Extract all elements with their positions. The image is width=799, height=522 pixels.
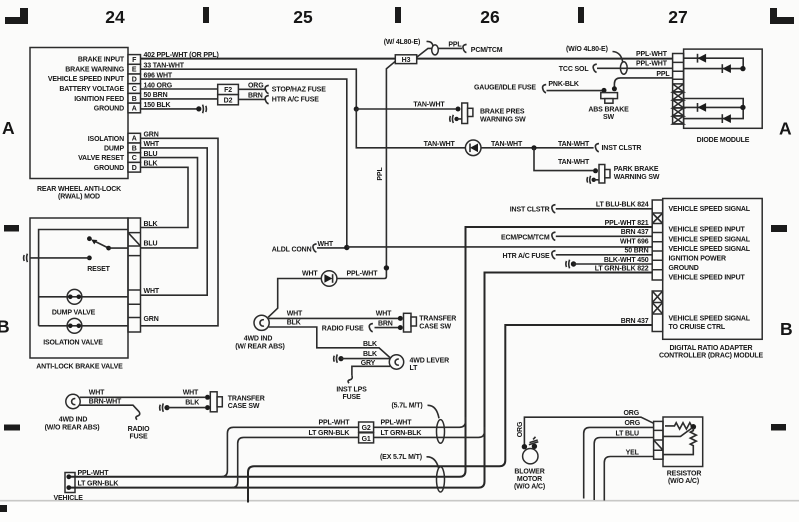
svg-text:BLK: BLK <box>185 399 199 406</box>
node junction PPL-WHT <box>384 265 389 270</box>
svg-text:VEHICLE SPEED SIGNAL: VEHICLE SPEED SIGNAL <box>669 206 751 213</box>
svg-text:SW: SW <box>603 114 615 121</box>
svg-text:50 BRN: 50 BRN <box>144 92 168 99</box>
transfer case sw connector bl <box>205 392 222 412</box>
svg-text:G1: G1 <box>362 436 371 443</box>
connector D2 <box>218 95 239 105</box>
svg-text:WHT: WHT <box>302 271 318 278</box>
svg-text:RADIO: RADIO <box>128 426 151 433</box>
svg-text:(W/O A/C): (W/O A/C) <box>514 484 545 491</box>
svg-text:INST CLSTR: INST CLSTR <box>510 207 550 214</box>
svg-text:BLK-WHT 450: BLK-WHT 450 <box>604 257 649 264</box>
lamp 4WD LEVER LT <box>389 355 403 369</box>
isolation valve coil <box>67 318 82 333</box>
wire dump valve row <box>39 296 128 298</box>
inline connector oval TCC <box>620 62 627 74</box>
hook TCC SOL <box>593 64 597 72</box>
svg-text:IGNITION FEED: IGNITION FEED <box>74 96 124 103</box>
svg-text:PPL-WHT: PPL-WHT <box>636 60 668 67</box>
case ground symbol <box>24 254 28 262</box>
svg-text:PPL-WHT: PPL-WHT <box>636 51 668 58</box>
svg-text:27: 27 <box>668 7 687 27</box>
svg-text:BRN 437: BRN 437 <box>621 229 649 236</box>
caption BLOWER MOTOR (W/O A/C) <box>514 468 545 490</box>
svg-text:(RWAL) MOD: (RWAL) MOD <box>58 194 100 201</box>
svg-text:DIODE MODULE: DIODE MODULE <box>697 137 750 144</box>
svg-text:PCM/TCM: PCM/TCM <box>471 47 503 54</box>
svg-text:E: E <box>132 67 137 74</box>
svg-text:BRAKE PRES: BRAKE PRES <box>480 108 525 115</box>
wire GRN pin A to valve <box>141 138 219 325</box>
svg-text:STOP/HAZ FUSE: STOP/HAZ FUSE <box>272 86 326 93</box>
wire 33 TAN-WHT from pin E <box>141 69 357 109</box>
svg-text:25: 25 <box>293 7 313 27</box>
svg-text:LT GRN-BLK 822: LT GRN-BLK 822 <box>595 266 649 273</box>
svg-text:BLU: BLU <box>144 241 158 248</box>
svg-text:ORG: ORG <box>624 410 640 417</box>
svg-text:GRY: GRY <box>361 360 376 367</box>
caption RADIO FUSE bl <box>128 426 151 441</box>
svg-text:(W/O REAR ABS): (W/O REAR ABS) <box>45 424 100 431</box>
svg-text:C: C <box>132 155 137 162</box>
RWAL connector 2 pin D <box>128 162 141 172</box>
DRAC connector 1 dividers <box>652 213 663 270</box>
svg-text:TAN-WHT: TAN-WHT <box>558 141 590 148</box>
svg-text:A: A <box>779 119 792 139</box>
connector G2 <box>359 422 374 432</box>
grid tick top 25/26 <box>395 7 401 23</box>
svg-text:(W/O 4L80-E): (W/O 4L80-E) <box>566 46 608 53</box>
svg-text:PPL: PPL <box>448 41 462 48</box>
svg-text:(5.7L M/T): (5.7L M/T) <box>392 402 423 409</box>
valve reset switch blade <box>91 240 108 249</box>
svg-text:PPL-WHT 821: PPL-WHT 821 <box>605 220 649 227</box>
wire BLK 4WD IND down-around <box>269 327 390 358</box>
svg-text:VEHICLE: VEHICLE <box>54 495 84 502</box>
wire isolation valve row <box>39 325 128 327</box>
diode module row2 wire <box>684 68 742 70</box>
valve reset blade pivot dot <box>106 246 111 251</box>
diode D2 <box>722 64 731 73</box>
resistor LT BLU tap <box>663 428 692 436</box>
DRAC connector 2 dividers <box>652 303 663 315</box>
svg-text:VEHICLE SPEED SIGNAL: VEHICLE SPEED SIGNAL <box>669 236 751 243</box>
anti-lock brake valve box <box>30 218 128 358</box>
label BRAKE PRES WARNING SW <box>480 108 526 123</box>
svg-text:YEL: YEL <box>626 449 640 456</box>
svg-text:A: A <box>2 118 15 138</box>
svg-text:PPL: PPL <box>377 167 384 181</box>
svg-text:696 WHT: 696 WHT <box>144 73 173 80</box>
svg-text:WHT: WHT <box>144 288 160 295</box>
wire BLK pin D to valve <box>141 167 189 227</box>
resistor connector dividers <box>654 430 663 450</box>
svg-text:CONTROLLER (DRAC) MODULE: CONTROLLER (DRAC) MODULE <box>659 353 764 360</box>
svg-text:(W/O A/C): (W/O A/C) <box>668 478 699 485</box>
resistor connector hatch <box>654 440 663 450</box>
DRAC module box <box>663 199 763 340</box>
connector VEHICLE <box>65 473 75 493</box>
wire BRN radio fuse to transfer case sw <box>375 327 399 329</box>
svg-text:WHT: WHT <box>144 141 160 148</box>
label TRANSFER CASE SW bl <box>228 395 265 410</box>
svg-text:INST LPS: INST LPS <box>336 386 367 393</box>
hook PCM/TCM <box>463 44 467 52</box>
ALDL hook <box>313 244 317 252</box>
svg-text:BRAKE WARNING: BRAKE WARNING <box>65 66 124 73</box>
svg-text:ECM/PCM/TCM: ECM/PCM/TCM <box>501 235 550 242</box>
svg-text:ISOLATION VALVE: ISOLATION VALVE <box>43 339 103 346</box>
svg-text:50 BRN: 50 BRN <box>625 248 649 255</box>
svg-text:402 PPL-WHT (OR PPL): 402 PPL-WHT (OR PPL) <box>144 52 219 59</box>
RWAL connector 2 pin B <box>128 143 141 153</box>
svg-text:REAR WHEEL ANTI-LOCK: REAR WHEEL ANTI-LOCK <box>37 186 121 193</box>
inline connector oval 5.7 <box>437 420 445 444</box>
hook ECM/PCM/TCM <box>552 232 556 240</box>
DRAC connector 2 hatch <box>652 291 663 314</box>
grid tick left mid <box>4 225 19 232</box>
svg-text:LT BLU: LT BLU <box>616 430 640 437</box>
svg-text:GROUND: GROUND <box>669 265 699 272</box>
svg-text:TRANSFER: TRANSFER <box>419 316 456 323</box>
svg-text:BLOWER: BLOWER <box>514 468 544 475</box>
svg-text:ABS BRAKE: ABS BRAKE <box>588 106 629 113</box>
svg-text:TCC SOL: TCC SOL <box>559 66 590 73</box>
diode D1 <box>698 54 707 63</box>
hook INST LPS FUSE <box>348 376 352 384</box>
svg-text:G2: G2 <box>362 425 371 432</box>
caption INST LPS FUSE <box>336 386 367 401</box>
ground G transfer case bl <box>160 403 170 411</box>
svg-text:HTR A/C FUSE: HTR A/C FUSE <box>272 97 319 104</box>
svg-text:LT GRN-BLK: LT GRN-BLK <box>78 480 119 487</box>
svg-text:IGNITION POWER: IGNITION POWER <box>669 255 726 262</box>
wire BLU reset to connector <box>109 247 128 249</box>
valve internal ground bus wire <box>39 230 128 326</box>
svg-text:B: B <box>0 317 10 337</box>
svg-text:4WD LEVER: 4WD LEVER <box>410 357 450 364</box>
svg-text:WHT: WHT <box>287 311 303 318</box>
wire BRN 437 upper <box>556 235 652 237</box>
RWAL connector 2 pin C <box>128 153 141 163</box>
svg-text:FUSE: FUSE <box>129 433 148 440</box>
diode D3 <box>698 103 707 112</box>
svg-text:PPL-WHT: PPL-WHT <box>347 271 379 278</box>
svg-text:VEHICLE SPEED INPUT: VEHICLE SPEED INPUT <box>48 76 125 83</box>
svg-text:FUSE: FUSE <box>342 394 361 401</box>
svg-text:CASE SW: CASE SW <box>419 323 451 330</box>
svg-text:VEHICLE SPEED SIGNAL: VEHICLE SPEED SIGNAL <box>669 315 751 322</box>
svg-text:BLK: BLK <box>144 221 158 228</box>
wire BLK ground to 4WD lever lamp <box>341 358 390 360</box>
svg-text:(W/ 4L80-E): (W/ 4L80-E) <box>384 39 420 46</box>
wire PPL vertical from H3 <box>337 61 395 278</box>
wire PPL-WHT vehicle to DRAC <box>71 227 652 477</box>
svg-text:HTR A/C FUSE: HTR A/C FUSE <box>503 253 550 260</box>
DRAC connector 1 body <box>652 200 663 280</box>
svg-text:INST CLSTR: INST CLSTR <box>602 145 642 152</box>
wire PCM/TCM stub <box>417 48 462 57</box>
resistor element vertical <box>663 428 696 455</box>
diode module connector hatch <box>673 84 684 124</box>
wire TCC SOL PPL-WHT to diode module <box>597 67 673 69</box>
svg-text:DUMP VALVE: DUMP VALVE <box>52 309 96 316</box>
hook from W/4L80-E to oval <box>427 41 434 46</box>
dump valve coil <box>67 289 82 304</box>
wire LT GRN-BLK branch to G1 <box>232 427 485 488</box>
svg-text:GROUND: GROUND <box>94 106 124 113</box>
node dot diode group2 <box>740 105 745 110</box>
wire BRN 437 ex-5.7 run <box>248 325 652 503</box>
svg-text:A: A <box>132 136 137 143</box>
caption 4WD IND (W/O REAR ABS) <box>45 417 100 432</box>
svg-text:24: 24 <box>105 7 125 27</box>
caption RESISTOR (W/O A/C) <box>667 470 702 485</box>
diode module box <box>684 49 763 128</box>
wire ORG blower to resistor <box>524 417 653 444</box>
svg-text:150 BLK: 150 BLK <box>144 102 171 109</box>
svg-text:RADIO FUSE: RADIO FUSE <box>322 326 364 333</box>
wire 150 BLK to ground <box>141 108 198 110</box>
svg-text:PPL: PPL <box>656 71 670 78</box>
svg-text:PARK BRAKE: PARK BRAKE <box>614 166 659 173</box>
wire 696 WHT from pin D <box>141 79 347 247</box>
diode module row3 wire <box>684 99 744 108</box>
hook radio fuse mid <box>369 324 373 332</box>
wire TAN-WHT lower branch <box>356 109 465 148</box>
diode module connector body <box>673 54 684 125</box>
hook RADIO FUSE bl <box>136 412 140 420</box>
diode inline circle 4WD IND <box>321 271 337 287</box>
svg-text:VALVE RESET: VALVE RESET <box>78 155 125 162</box>
svg-text:F2: F2 <box>224 87 232 94</box>
svg-text:TAN-WHT: TAN-WHT <box>424 141 456 148</box>
diode D4 <box>722 114 731 123</box>
svg-text:GROUND: GROUND <box>94 165 124 172</box>
grid tick right lower <box>771 424 786 431</box>
wire 50 BRN to D2 <box>141 98 218 100</box>
svg-text:WARNING SW: WARNING SW <box>614 174 660 181</box>
svg-text:ORG: ORG <box>517 421 524 437</box>
svg-text:VEHICLE SPEED INPUT: VEHICLE SPEED INPUT <box>669 274 746 281</box>
DRAC pin text VEHICLE SPEED SIGNAL TO CRUISE CTRL <box>669 315 751 331</box>
svg-text:MOTOR: MOTOR <box>517 476 542 483</box>
svg-text:WHT 696: WHT 696 <box>620 239 649 246</box>
svg-text:WHT: WHT <box>376 311 392 318</box>
wire TAN-WHT to park brake warning sw <box>534 148 593 171</box>
svg-text:(EX 5.7L M/T): (EX 5.7L M/T) <box>380 454 422 461</box>
wire BRN from D2 <box>238 98 265 100</box>
scan page lower margin <box>0 502 799 522</box>
DRAC connector 2 body <box>652 291 663 332</box>
grid tick right mid <box>771 225 787 232</box>
svg-text:ISOLATION: ISOLATION <box>88 136 124 143</box>
svg-text:BATTERY VOLTAGE: BATTERY VOLTAGE <box>59 86 124 93</box>
wire WHT 4WD IND to transfer case sw <box>269 317 398 319</box>
svg-text:B: B <box>132 145 137 152</box>
RWAL caption <box>37 186 121 201</box>
wire TAN-WHT diode to inst clstr <box>481 147 594 149</box>
RWAL connector 1 pin A <box>128 103 141 113</box>
node dot diode group1 <box>740 66 745 71</box>
svg-text:WHT: WHT <box>318 241 334 248</box>
wire ORG 2 to resistor <box>584 427 654 498</box>
RWAL connector 1 pin E <box>128 64 141 74</box>
label PARK BRAKE WARNING SW <box>614 166 660 181</box>
svg-text:C: C <box>132 86 137 93</box>
svg-text:WHT: WHT <box>89 389 105 396</box>
inline connector oval ex5.7 <box>437 467 445 492</box>
svg-text:TO CRUISE CTRL: TO CRUISE CTRL <box>669 324 726 331</box>
svg-text:D: D <box>132 76 137 83</box>
ground G 4WD lever <box>334 354 344 362</box>
wire 140 ORG to F2 <box>141 88 218 90</box>
fuse hook STOP/HAZ <box>265 85 269 93</box>
svg-text:DUMP: DUMP <box>104 146 124 153</box>
diode module row4 wire <box>684 106 742 108</box>
grid tick bottom-left <box>0 505 7 512</box>
diode module row1 wire <box>684 58 744 68</box>
inline connector oval PCM/TCM <box>432 45 439 55</box>
park brake warning sw <box>587 165 610 184</box>
wire LT BLU-BLK 824 <box>556 208 652 210</box>
svg-text:PPL-WHT: PPL-WHT <box>78 470 110 477</box>
valve reset pole dot <box>87 256 92 261</box>
lamp 4WD IND (W/ REAR ABS) <box>254 315 269 330</box>
svg-text:WHT: WHT <box>183 389 199 396</box>
svg-text:33 TAN-WHT: 33 TAN-WHT <box>144 63 185 70</box>
RWAL connector 1 pin F <box>128 55 141 65</box>
node junction TAN-WHT <box>354 106 359 111</box>
hook W/O 4L80 to oval <box>613 52 623 63</box>
svg-text:BRN: BRN <box>248 93 263 100</box>
svg-text:GRN: GRN <box>144 132 159 139</box>
svg-text:RESET: RESET <box>87 266 110 273</box>
svg-text:BRAKE INPUT: BRAKE INPUT <box>78 57 125 64</box>
wire PPL-WHT branch to G2 <box>221 417 465 477</box>
valve connector body <box>128 218 141 332</box>
caption 4WD IND (W/ REAR ABS) <box>235 336 285 351</box>
svg-text:LT GRN-BLK: LT GRN-BLK <box>381 430 422 437</box>
wire PPL to diode module <box>614 78 672 88</box>
hook ex5.7 to oval <box>427 457 439 468</box>
label 4WD LEVER LT <box>410 357 450 372</box>
svg-text:PPL-WHT: PPL-WHT <box>381 420 413 427</box>
wire BRN-WHT to radio fuse <box>80 405 139 412</box>
svg-text:TRANSFER: TRANSFER <box>228 395 265 402</box>
svg-text:BLK: BLK <box>363 341 377 348</box>
svg-text:BLK: BLK <box>363 351 377 358</box>
wire BLK ground to transfer case sw bl <box>167 407 205 409</box>
svg-text:H3: H3 <box>402 57 411 64</box>
node junction 696 WHT <box>344 245 349 250</box>
svg-text:D: D <box>132 165 137 172</box>
blower motor <box>522 437 539 464</box>
lamp 4WD IND (W/O REAR ABS) <box>66 394 80 408</box>
RWAL connector 1 pin C <box>128 84 141 94</box>
svg-text:D2: D2 <box>224 97 233 104</box>
wire LT BLU to resistor <box>594 438 653 501</box>
diode D inline circle on TAN-WHT <box>465 140 481 156</box>
valve connector dividers <box>128 233 141 318</box>
grid tick top 26/27 <box>578 7 584 23</box>
svg-text:VEHICLE SPEED SIGNAL: VEHICLE SPEED SIGNAL <box>669 246 751 253</box>
wire BLU pin C to valve <box>141 158 198 248</box>
svg-text:ORG: ORG <box>248 82 264 89</box>
grid corner mark top-right <box>770 8 794 24</box>
hook INST CLSTR <box>595 144 599 152</box>
svg-text:GAUGE/IDLE FUSE: GAUGE/IDLE FUSE <box>474 84 536 91</box>
wire ALDL stub <box>317 247 347 249</box>
svg-text:4WD IND: 4WD IND <box>59 417 88 424</box>
RWAL connector 1 pin B <box>128 93 141 103</box>
svg-text:ORG: ORG <box>625 420 641 427</box>
svg-text:LT BLU-BLK 824: LT BLU-BLK 824 <box>596 202 649 209</box>
page bottom rule <box>0 500 799 502</box>
RWAL connector 2 pin A <box>128 133 141 143</box>
svg-text:PPL-WHT: PPL-WHT <box>319 420 351 427</box>
svg-text:TAN-WHT: TAN-WHT <box>491 141 523 148</box>
grid tick left lower <box>4 425 20 431</box>
svg-text:GRN: GRN <box>144 316 159 323</box>
svg-text:BRN: BRN <box>378 320 393 327</box>
svg-text:140 ORG: 140 ORG <box>144 82 173 89</box>
RWAL module box <box>30 48 128 179</box>
hook HTR A/C FUSE drac <box>552 251 556 259</box>
connector H3 <box>395 55 416 64</box>
wire WHT diode to 4WD IND <box>268 279 321 318</box>
svg-text:BLK: BLK <box>144 161 158 168</box>
wire WHT 4WD IND wo-abs <box>80 396 205 398</box>
valve connector hatch <box>128 233 141 246</box>
hook 5.7 to oval <box>428 405 440 418</box>
svg-text:4WD IND: 4WD IND <box>244 336 273 343</box>
wire TAN-WHT to brake pres warning sw <box>356 108 455 110</box>
diode module row5 wire <box>684 108 744 119</box>
svg-text:(W/ REAR ABS): (W/ REAR ABS) <box>235 343 285 350</box>
brake pres warning sw <box>450 103 473 124</box>
abs brake sw <box>601 86 618 103</box>
resistor element horizontal <box>665 423 692 429</box>
svg-text:B: B <box>780 319 793 339</box>
transfer case sw connector mid <box>398 313 417 332</box>
node junction TAN-WHT park brake <box>531 145 536 150</box>
wire LT GRN-BLK vehicle to DRAC <box>71 273 652 488</box>
svg-text:BRN-WHT: BRN-WHT <box>89 399 122 406</box>
svg-text:TAN-WHT: TAN-WHT <box>413 101 445 108</box>
resistor node dot <box>691 424 697 430</box>
DRAC connector 1 hatch <box>652 213 663 224</box>
grid tick top 24/25 <box>203 7 209 23</box>
svg-text:TAN-WHT: TAN-WHT <box>558 159 590 166</box>
svg-text:A: A <box>132 106 137 113</box>
svg-text:ANTI-LOCK BRAKE VALVE: ANTI-LOCK BRAKE VALVE <box>36 363 123 370</box>
wire 696 WHT to DRAC <box>347 246 653 248</box>
wire YEL to resistor <box>604 457 653 501</box>
svg-text:B: B <box>132 96 137 103</box>
svg-text:BLU: BLU <box>144 151 158 158</box>
connector F2 <box>218 84 239 94</box>
svg-text:PNK-BLK: PNK-BLK <box>548 81 579 88</box>
wire WHT pin B to valve <box>141 148 208 295</box>
wire PNK-BLK to abs brake sw <box>547 90 605 92</box>
diode module connector dividers <box>673 62 684 116</box>
wire 50 BRN <box>556 254 652 256</box>
valve reset contact dot upper <box>87 236 92 241</box>
grid corner mark top-left <box>5 8 28 24</box>
resistor connector body <box>654 421 663 459</box>
svg-text:ALDL CONN: ALDL CONN <box>272 246 312 253</box>
